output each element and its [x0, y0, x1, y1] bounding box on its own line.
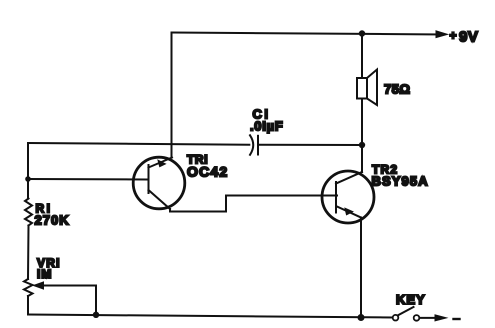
capacitor C1 [250, 135, 258, 155]
svg-text:270K: 270K [35, 213, 70, 228]
node junction dot top rail / speaker [359, 30, 365, 36]
transistor TR1 OC42 (PNP) [133, 157, 185, 209]
node junction dot VR1 wiper / bottom rail [93, 312, 99, 318]
wire top supply rail [172, 33, 445, 35]
wire speaker top lead [361, 34, 363, 79]
wire speaker bottom lead to node [361, 99, 363, 146]
svg-text:.0IµF: .0IµF [250, 119, 283, 134]
switch KEY [393, 307, 437, 321]
svg-text:9V: 9V [459, 29, 478, 46]
node junction dot C1 / TR2 collector [359, 142, 365, 148]
wire TR2 collector lead [361, 145, 363, 172]
svg-text:OC42: OC42 [187, 164, 228, 180]
wire mid feedback line right section [260, 144, 363, 146]
wire TR1 base lead [28, 178, 147, 181]
label minus terminal [454, 318, 460, 320]
wire TR1 collector riser [171, 33, 173, 158]
svg-text:BSY95A: BSY95A [372, 174, 429, 189]
node junction dot TR2 emitter / bottom rail [358, 314, 365, 321]
wire mid feedback line left section [28, 143, 249, 145]
svg-text:KEY: KEY [396, 292, 426, 307]
wire left vertical from mid line [27, 143, 29, 199]
transistor TR2 BSY95A (NPN) [322, 171, 374, 223]
svg-text:75Ω: 75Ω [384, 82, 410, 97]
potentiometer VR1 1M [24, 279, 96, 315]
wire between R1 and VR1 [27, 226, 30, 280]
speaker LS1 75 ohm [357, 70, 377, 106]
node junction dot TR1 base line [25, 176, 31, 182]
svg-text:IM: IM [37, 267, 52, 281]
svg-text:+: + [450, 29, 457, 43]
resistor R1 270K [25, 199, 32, 226]
wire bottom rail [28, 315, 393, 318]
negative terminal arrow [435, 315, 447, 321]
wire VR1 bottom to rail [27, 296, 29, 315]
wire TR1 emitter to TR2 base (stepped) [170, 196, 337, 212]
wire TR2 emitter down to bottom rail [360, 218, 362, 318]
power terminal arrow +9V [436, 31, 448, 38]
